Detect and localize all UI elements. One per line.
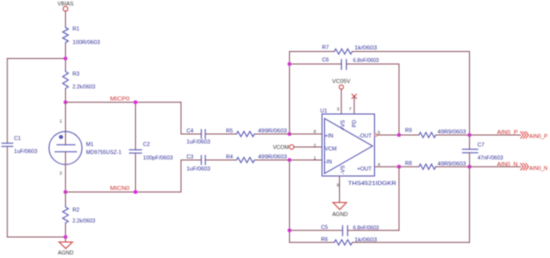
wire -IN node to op-amp	[290, 159, 323, 161]
wire +OUT to node	[375, 166, 400, 168]
resistor R9	[419, 132, 436, 137]
wire R1 to node	[65, 44, 67, 59]
wire MICN0 jog up	[180, 160, 182, 192]
svg-text:8: 8	[314, 129, 317, 134]
port chevron AIN0_N	[521, 163, 529, 170]
capacitor C2	[135, 102, 137, 150]
output bubble pin 5	[375, 134, 378, 137]
svg-text:AIN0_P: AIN0_P	[529, 134, 548, 140]
wire C1 to bottom rail	[6, 146, 8, 237]
svg-text:AGND: AGND	[58, 251, 74, 257]
svg-text:VCM: VCM	[325, 147, 337, 153]
junction -IN node	[288, 158, 292, 162]
wire MICN0 row	[66, 191, 182, 193]
resistor R6	[290, 241, 335, 243]
svg-text:1k/0603: 1k/0603	[355, 46, 378, 52]
wire MICP0 row	[66, 101, 182, 103]
svg-text:+IN: +IN	[325, 134, 334, 140]
wire node to left rail	[7, 58, 65, 60]
power symbol VBIAS	[63, 6, 68, 11]
svg-text:2: 2	[60, 171, 63, 176]
wire MICP0 jog down	[180, 102, 182, 134]
wire C4 to R5	[205, 133, 236, 135]
wire to C3	[181, 159, 201, 161]
svg-text:1uF/0603: 1uF/0603	[187, 140, 211, 146]
capacitor C7	[469, 135, 471, 149]
wire PD pin	[353, 96, 355, 114]
svg-text:R5: R5	[226, 128, 233, 134]
wire R7 right vertical	[469, 52, 471, 135]
port chevron AIN0_P	[521, 132, 529, 139]
svg-text:R9: R9	[405, 128, 412, 134]
wire feedback bottom left vertical	[289, 160, 291, 242]
resistor R2	[63, 206, 69, 225]
svg-text:C1: C1	[14, 136, 21, 142]
wire AGND stub	[65, 237, 67, 242]
svg-text:AGND: AGND	[332, 212, 348, 218]
svg-text:1uF/0603: 1uF/0603	[14, 149, 37, 155]
junction +OUT node	[397, 165, 401, 169]
svg-text:100pF/0603: 100pF/0603	[143, 155, 173, 161]
wire mic top	[65, 102, 67, 145]
svg-text:C6: C6	[322, 57, 329, 63]
wire -OUT to node	[377, 134, 399, 136]
wire to R9	[399, 134, 419, 136]
wire R8 to AIN0_N node	[436, 166, 470, 168]
svg-text:C2: C2	[143, 142, 150, 148]
svg-text:R4: R4	[226, 154, 233, 160]
resistor R7	[290, 51, 335, 53]
svg-text:C4: C4	[187, 128, 194, 134]
junction +IN node	[288, 132, 292, 136]
svg-text:VC05V: VC05V	[332, 79, 351, 85]
ground AGND left	[59, 242, 73, 249]
svg-text:47nF/0603: 47nF/0603	[478, 156, 504, 162]
svg-text:THS4521IDGKR: THS4521IDGKR	[348, 181, 396, 187]
svg-text:R6: R6	[321, 237, 328, 243]
wire R5 to +IN node	[255, 133, 290, 135]
junction MICP0 node	[64, 100, 68, 104]
junction AIN0_N node	[468, 165, 472, 169]
svg-text:R7: R7	[322, 45, 329, 51]
resistor R3	[63, 70, 69, 90]
resistor R5	[237, 131, 255, 136]
wire VCOM to op-amp	[294, 146, 322, 148]
svg-text:C7: C7	[478, 142, 485, 148]
svg-text:+OUT: +OUT	[357, 166, 372, 172]
svg-text:6.8nF/0603: 6.8nF/0603	[353, 58, 379, 64]
svg-text:1: 1	[60, 119, 63, 124]
wire mic bottom	[65, 152, 67, 192]
wire R4 to -IN node	[255, 159, 290, 161]
svg-text:MD9755USZ-1: MD9755USZ-1	[86, 150, 122, 156]
svg-text:PD: PD	[352, 120, 358, 128]
wire +IN node to op-amp	[290, 133, 323, 135]
svg-text:2.2k/0603: 2.2k/0603	[73, 84, 96, 90]
svg-text:AIN0_N: AIN0_N	[497, 162, 518, 168]
svg-text:VBIAS: VBIAS	[58, 1, 74, 7]
capacitor C6	[290, 63, 342, 65]
wire R2 to AGND node	[65, 225, 67, 238]
wire AIN0_N row	[470, 166, 521, 168]
svg-text:VCOM: VCOM	[273, 145, 290, 151]
svg-text:U1: U1	[320, 108, 327, 114]
ground AGND op-amp	[333, 203, 347, 210]
wire VBIAS to R1	[65, 11, 67, 26]
capacitor C5	[290, 229, 343, 231]
wire left rail down to C1	[6, 59, 8, 144]
junction AGND node	[64, 235, 68, 239]
svg-text:2.2k/0603: 2.2k/0603	[73, 218, 96, 224]
op-amp U1 box	[322, 114, 375, 176]
svg-text:7: 7	[349, 106, 352, 111]
capacitor C3	[201, 156, 205, 165]
svg-text:1uF/0603: 1uF/0603	[187, 166, 211, 172]
svg-text:100R/0603: 100R/0603	[73, 40, 101, 46]
wire C3 to R4	[205, 159, 236, 161]
svg-text:1: 1	[314, 156, 317, 161]
svg-text:R8: R8	[405, 161, 412, 167]
svg-text:-VS: -VS	[341, 165, 347, 174]
svg-text:R3: R3	[73, 71, 80, 77]
svg-text:AIN0_N: AIN0_N	[529, 166, 547, 172]
wire feedback top left vertical	[289, 52, 291, 135]
junction MICN0 node	[64, 190, 68, 194]
svg-text:M1: M1	[86, 142, 94, 148]
svg-text:5: 5	[378, 130, 381, 135]
wire bottom rail	[7, 236, 65, 238]
svg-text:C5: C5	[321, 225, 328, 231]
svg-text:2: 2	[314, 143, 317, 148]
wire MICN0 to R2	[65, 192, 67, 206]
wire to R8	[399, 166, 419, 168]
resistor R8	[419, 164, 436, 169]
resistor R1	[63, 26, 69, 44]
junction VBIAS node	[64, 57, 68, 61]
svg-text:1k/0603: 1k/0603	[355, 237, 378, 243]
svg-text:MICN0: MICN0	[110, 186, 130, 192]
wire C5 right vertical	[398, 167, 400, 231]
wire node to R3	[65, 59, 67, 71]
wire -VS pin to AGND	[339, 176, 341, 203]
wire R9 to AIN0_P node	[436, 134, 470, 136]
svg-text:R1: R1	[73, 27, 80, 33]
capacitor C4	[201, 130, 205, 139]
svg-text:+VS: +VS	[341, 120, 347, 131]
svg-text:MICP0: MICP0	[110, 97, 130, 103]
junction -OUT node	[397, 133, 401, 137]
svg-text:R2: R2	[73, 207, 80, 213]
resistor R4	[237, 157, 255, 162]
wire R3 to MICP0 node	[65, 90, 67, 102]
wire C6 right vertical	[398, 64, 400, 135]
svg-text:AIN0_P: AIN0_P	[497, 130, 518, 136]
no-connect X on PD	[352, 94, 356, 98]
microphone M1	[49, 132, 82, 165]
svg-text:C3: C3	[187, 154, 194, 160]
junction AIN0_P node	[468, 133, 472, 137]
svg-text:-IN: -IN	[325, 160, 332, 166]
junction C5 left	[288, 229, 292, 233]
wire AIN0_P row	[470, 134, 521, 136]
wire to C4	[181, 133, 201, 135]
op-amp U1 triangle	[325, 119, 373, 174]
wire VC05V to +VS pin	[340, 89, 342, 114]
svg-text:-OUT: -OUT	[359, 134, 373, 140]
capacitor C1	[2, 143, 13, 146]
junction C6 left	[288, 62, 292, 66]
wire R6 right vertical	[469, 167, 471, 243]
svg-text:6.8nF/0603: 6.8nF/0603	[353, 225, 379, 231]
svg-text:3: 3	[337, 107, 340, 112]
